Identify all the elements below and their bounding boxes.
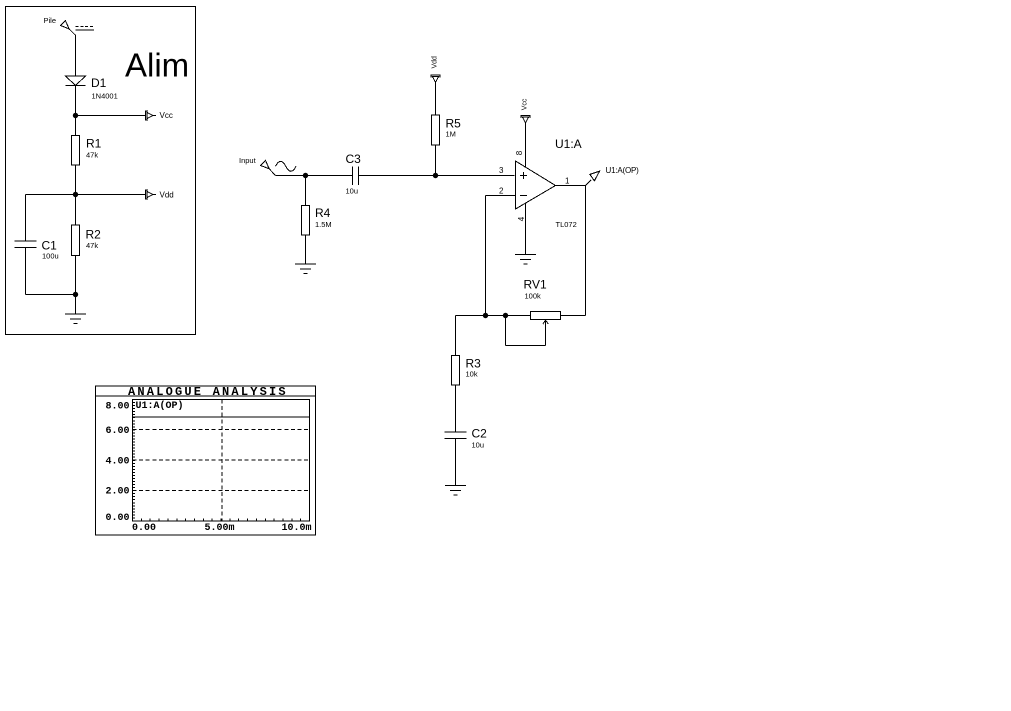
- svg-text:0.00: 0.00: [132, 523, 156, 534]
- svg-text:R1: R1: [86, 137, 102, 151]
- svg-text:0.00: 0.00: [105, 513, 129, 524]
- svg-text:100u: 100u: [42, 252, 59, 261]
- svg-text:U1:A: U1:A: [555, 137, 582, 151]
- svg-text:8: 8: [515, 150, 524, 155]
- svg-text:1: 1: [565, 177, 570, 186]
- svg-text:C2: C2: [472, 427, 488, 441]
- svg-text:1M: 1M: [446, 130, 456, 139]
- svg-text:4: 4: [517, 216, 526, 221]
- svg-text:ANALOGUE ANALYSIS: ANALOGUE ANALYSIS: [128, 385, 288, 399]
- svg-text:Vdd: Vdd: [160, 191, 174, 200]
- svg-text:TL072: TL072: [556, 220, 577, 229]
- svg-text:C1: C1: [42, 239, 58, 253]
- svg-text:R5: R5: [446, 117, 462, 131]
- svg-text:1.5M: 1.5M: [315, 220, 332, 229]
- svg-text:100k: 100k: [525, 292, 542, 301]
- svg-text:4.00: 4.00: [105, 456, 129, 467]
- svg-text:RV1: RV1: [524, 278, 547, 292]
- svg-text:Pile: Pile: [44, 16, 57, 25]
- svg-text:R4: R4: [315, 206, 331, 220]
- svg-text:R3: R3: [466, 357, 482, 371]
- svg-text:10k: 10k: [466, 370, 478, 379]
- svg-text:10u: 10u: [472, 441, 485, 450]
- svg-text:47k: 47k: [86, 241, 98, 250]
- svg-text:C3: C3: [346, 152, 362, 166]
- svg-text:1N4001: 1N4001: [92, 92, 118, 101]
- svg-text:47k: 47k: [86, 151, 98, 160]
- svg-text:5.00m: 5.00m: [204, 523, 234, 534]
- svg-text:U1:A(OP): U1:A(OP): [606, 166, 640, 175]
- svg-text:Vcc: Vcc: [522, 98, 529, 110]
- svg-text:10u: 10u: [346, 187, 359, 196]
- svg-text:D1: D1: [91, 76, 107, 90]
- svg-text:Alim: Alim: [125, 47, 189, 84]
- svg-text:Input: Input: [239, 156, 257, 165]
- svg-text:U1:A(OP): U1:A(OP): [136, 400, 184, 412]
- svg-text:2.00: 2.00: [105, 487, 129, 498]
- svg-text:Vcc: Vcc: [160, 111, 173, 120]
- svg-text:8.00: 8.00: [105, 401, 129, 412]
- svg-text:2: 2: [499, 187, 504, 196]
- svg-text:3: 3: [499, 166, 504, 175]
- svg-text:10.0m: 10.0m: [281, 523, 311, 534]
- svg-text:6.00: 6.00: [105, 426, 129, 437]
- svg-text:Vdd: Vdd: [432, 56, 439, 69]
- svg-text:R2: R2: [86, 228, 102, 242]
